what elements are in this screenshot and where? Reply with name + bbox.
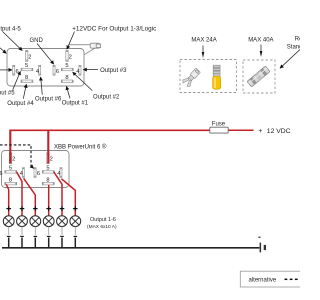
svg-text:Output #2: Output #2 — [93, 94, 120, 100]
svg-text:Standard: Standard — [287, 45, 300, 51]
svg-text:XBB PowerUnit 6 ®: XBB PowerUnit 6 ® — [54, 143, 107, 150]
svg-text:Output 4-5: Output 4-5 — [0, 26, 21, 32]
svg-text:Output #5: Output #5 — [0, 90, 15, 96]
svg-text:alternative: alternative — [249, 277, 277, 283]
svg-text:Output #6: Output #6 — [35, 97, 62, 103]
svg-text:12 VDC: 12 VDC — [267, 128, 291, 135]
svg-text:Fuse: Fuse — [212, 121, 226, 127]
svg-text:+: + — [258, 128, 262, 135]
svg-text:GND: GND — [30, 38, 44, 44]
svg-text:MAX 24A: MAX 24A — [191, 37, 216, 43]
svg-text:+12VDC For Output 1-3/Logic: +12VDC For Output 1-3/Logic — [72, 26, 156, 33]
svg-text:(MAX 6x10 A): (MAX 6x10 A) — [87, 224, 117, 230]
svg-text:Output 1-6: Output 1-6 — [90, 217, 116, 223]
svg-text:Output #3: Output #3 — [100, 68, 127, 74]
svg-text:Output #1: Output #1 — [62, 101, 89, 107]
svg-text:MAX 40A: MAX 40A — [248, 37, 273, 43]
svg-text:Output #4: Output #4 — [7, 101, 34, 107]
svg-text:Relay: Relay — [295, 37, 300, 43]
